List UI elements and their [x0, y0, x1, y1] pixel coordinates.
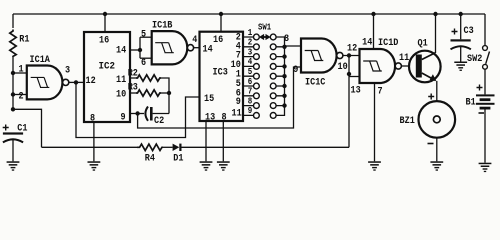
- op-amp/gate IC1D body: [360, 49, 396, 83]
- svg-text:Q1: Q1: [418, 39, 428, 50]
- capacitor C3 top plate: [451, 39, 471, 41]
- svg-text:3: 3: [65, 65, 70, 76]
- svg-text:IC1D: IC1D: [378, 38, 398, 49]
- wire: D1 to IC1D input tie: [182, 146, 350, 148]
- IC1C schmitt glyph: [305, 51, 324, 61]
- wire: IC2 pin 14 to IC1B inputs: [130, 49, 140, 51]
- svg-text:BZ1: BZ1: [400, 116, 415, 127]
- SW1 wiper arrow: [260, 35, 270, 39]
- svg-text:SW2: SW2: [467, 54, 482, 65]
- svg-text:R3: R3: [128, 83, 138, 94]
- svg-text:IC1C: IC1C: [305, 78, 325, 89]
- op-amp/gate IC1B body: [152, 31, 188, 64]
- ground (C1): [7, 161, 20, 170]
- op-amp/gate IC1C body: [301, 39, 337, 73]
- svg-text:B1: B1: [466, 98, 476, 109]
- resistor R1: [10, 30, 16, 58]
- node: reset junction: [74, 80, 78, 84]
- svg-text:8: 8: [222, 113, 227, 124]
- svg-text:IC1A: IC1A: [30, 55, 50, 66]
- svg-text:2: 2: [19, 92, 24, 103]
- wire: bus to IC1C pin 8: [285, 45, 302, 48]
- svg-text:D1: D1: [173, 154, 183, 165]
- wire: IC3 pin 8 to ground: [222, 121, 224, 161]
- wire: IC1B input vertical: [139, 37, 141, 58]
- svg-text:IC2: IC2: [99, 61, 116, 72]
- node: IC1A pin2 junction: [11, 92, 15, 96]
- svg-text:4: 4: [248, 57, 253, 67]
- capacitor C3 curved plate: [451, 46, 471, 49]
- wire: IC2 pin 16: [104, 14, 106, 32]
- svg-text:4: 4: [192, 35, 197, 46]
- ground (IC2 pin 8): [88, 161, 101, 170]
- SW1 position number labels column: [248, 28, 253, 116]
- svg-text:1: 1: [19, 65, 24, 76]
- node: IC1D pin12 junction: [347, 53, 351, 57]
- node: rail to C3: [459, 12, 463, 16]
- resistor R4: [137, 144, 163, 150]
- Q1 base bar: [416, 55, 422, 78]
- wire: IC1B output to IC3 pin 14: [194, 47, 200, 49]
- node: rail to Q1 collector: [433, 12, 437, 16]
- svg-text:8: 8: [248, 96, 253, 106]
- svg-text:1: 1: [248, 28, 253, 38]
- svg-text:IC1B: IC1B: [152, 21, 172, 32]
- svg-text:11: 11: [399, 53, 409, 64]
- svg-text:16: 16: [99, 35, 109, 46]
- capacitor C2 curved plate: [145, 107, 148, 121]
- svg-text:10: 10: [338, 62, 348, 73]
- svg-text:6: 6: [248, 77, 253, 87]
- wire: left rail down from V+: [12, 14, 14, 28]
- transistor Q1: [409, 51, 441, 83]
- svg-text:8: 8: [284, 34, 289, 45]
- svg-text:C3: C3: [464, 26, 474, 37]
- capacitor C1 plus sign: [3, 125, 9, 131]
- wire: R2 to right junction: [161, 78, 169, 114]
- svg-text:3: 3: [248, 47, 253, 57]
- node: rail to IC3 pin16: [219, 12, 223, 16]
- battery B1: [476, 94, 495, 109]
- wire: IC3 pin 16: [220, 14, 222, 32]
- IC1A schmitt glyph: [31, 77, 50, 87]
- wire: IC1B pin 6 stub: [140, 57, 152, 59]
- wire: IC2 pin 9 stub: [130, 113, 144, 115]
- capacitor C1 curved plate: [3, 139, 23, 142]
- node: IC1A pin1 junction: [11, 71, 15, 75]
- wire: BZ1 to ground: [436, 138, 438, 162]
- IC1C output bubble: [337, 52, 343, 58]
- ground (IC3 pin 13): [200, 161, 213, 170]
- buzzer plus sign: [428, 94, 434, 100]
- capacitor C1 top plate: [3, 132, 23, 134]
- wire: rail to C3: [460, 14, 462, 39]
- node: C1 junction on left rail: [11, 107, 15, 111]
- wire: Q1 emitter to buzzer: [436, 81, 438, 101]
- buzzer minus sign: [428, 143, 434, 145]
- svg-text:7: 7: [378, 87, 383, 98]
- wire: IC2 pin10 stub: [130, 92, 136, 94]
- wire: C1 to ground: [12, 140, 14, 161]
- wire: IC1D input tie vertical down to R4/D1 line: [348, 56, 350, 148]
- battery plus sign: [477, 85, 483, 91]
- wire: IC1A pin 2 stub: [13, 94, 28, 96]
- svg-text:14: 14: [116, 46, 126, 57]
- wire: IC2 pin11 stub: [130, 77, 136, 79]
- ground (IC1D pin 7): [368, 161, 381, 170]
- svg-text:5: 5: [248, 67, 253, 77]
- svg-text:IC3: IC3: [213, 67, 228, 78]
- IC1D output bubble: [395, 63, 401, 69]
- IC2 box: [84, 32, 130, 122]
- wire: IC1D pin 14: [373, 14, 375, 49]
- svg-text:9: 9: [293, 65, 298, 76]
- svg-text:13: 13: [351, 85, 361, 96]
- svg-text:10: 10: [116, 90, 126, 101]
- wire: reset line down and right to IC3 pin15 riser: [76, 82, 200, 137]
- switch SW2: [483, 46, 488, 51]
- svg-text:15: 15: [204, 94, 214, 105]
- svg-text:C2: C2: [154, 116, 164, 127]
- IC1B output bubble: [187, 45, 193, 51]
- wire: IC1D output to Q1 base: [401, 65, 409, 67]
- svg-text:5: 5: [141, 30, 146, 41]
- IC1B schmitt glyph: [155, 43, 174, 53]
- IC3 box: [200, 32, 244, 121]
- svg-text:9: 9: [236, 97, 241, 108]
- svg-text:7: 7: [248, 87, 253, 97]
- svg-text:9: 9: [121, 113, 126, 124]
- wire: C2 to R2/R3 junction: [153, 113, 169, 115]
- Q1 emitter line with arrow: [422, 73, 436, 81]
- wire: SW2 to battery: [484, 69, 486, 94]
- node: pin9/C2 junction: [135, 111, 139, 115]
- svg-text:R4: R4: [145, 154, 155, 165]
- buzzer BZ1: [419, 101, 456, 138]
- wire: R4/D1 timing line: [42, 146, 138, 148]
- IC1D schmitt glyph: [363, 61, 382, 71]
- wire: C3 to ground: [460, 47, 462, 62]
- capacitor C3 plus sign: [452, 29, 458, 35]
- svg-text:12: 12: [86, 76, 96, 87]
- wire: pin9 node to IC1C pin9 (osc line): [138, 67, 301, 128]
- svg-text:14: 14: [362, 38, 372, 49]
- SW1 left contacts: [254, 34, 260, 118]
- ground (C3): [454, 62, 467, 71]
- svg-text:16: 16: [213, 35, 223, 46]
- svg-text:12: 12: [347, 43, 357, 54]
- svg-text:14: 14: [203, 44, 213, 55]
- wire: IC1A pin 1 stub: [13, 72, 28, 74]
- wire: IC2 pin 8 to ground: [93, 122, 95, 161]
- wire: C1 node to R4 line: [13, 109, 42, 147]
- svg-text:SW1: SW1: [258, 23, 272, 33]
- wire: R3 to right junction: [161, 92, 169, 94]
- svg-text:11: 11: [232, 108, 242, 119]
- svg-text:2: 2: [248, 38, 253, 48]
- wire: IC1D pin 13 stub: [349, 76, 360, 78]
- op-amp/gate IC1A body: [27, 66, 63, 100]
- wire: SW1 right contact stubs to bus: [276, 47, 284, 106]
- svg-text:11: 11: [116, 75, 126, 86]
- wire: Q1 collector to rail: [435, 14, 437, 53]
- ground (IC3 pin 8): [217, 161, 230, 170]
- wire: IC3 pin 13 to ground: [205, 121, 207, 161]
- node: rail to IC2 pin16: [103, 12, 107, 16]
- node: IC1D pin13 junction: [347, 72, 351, 76]
- node: R2/R3 junction: [167, 91, 171, 95]
- resistor R3: [136, 90, 161, 96]
- wire: IC1D pin 7 to ground: [374, 83, 376, 161]
- ground (B1): [479, 163, 492, 172]
- IC1A output bubble: [63, 79, 69, 85]
- IC3 output pin labels column: [231, 32, 241, 108]
- resistor R2: [136, 75, 161, 81]
- diode D1: [173, 144, 182, 151]
- ground (BZ1): [430, 161, 443, 170]
- node: bus junction dots: [282, 45, 286, 108]
- wire: IC3 output stubs to SW1 contacts: [243, 37, 253, 115]
- wire: B1 to ground: [484, 110, 486, 163]
- wire: IC1C output to IC1D pin 12: [343, 55, 360, 57]
- svg-text:9: 9: [248, 106, 253, 116]
- wire: top V+ rail: [13, 13, 485, 15]
- SW1 right contacts: [270, 34, 276, 118]
- svg-text:6: 6: [141, 58, 146, 69]
- battery minus sign: [479, 112, 485, 114]
- wire: IC1A output to IC2 pin 12: [69, 81, 84, 83]
- wire: left rail R1 to C1: [12, 57, 14, 110]
- wire: R4 to D1: [163, 146, 173, 148]
- wire: rail right end down to SW2: [484, 14, 486, 46]
- node: IC1B input junction: [138, 48, 142, 52]
- svg-text:R1: R1: [19, 35, 29, 46]
- wire: SW1 common bus: [276, 37, 284, 115]
- wire: IC1B pin 5 stub: [140, 36, 152, 38]
- capacitor C2 straight plate: [150, 107, 153, 121]
- node: rail to IC1D pin14: [371, 12, 375, 16]
- Q1 collector line: [422, 53, 436, 60]
